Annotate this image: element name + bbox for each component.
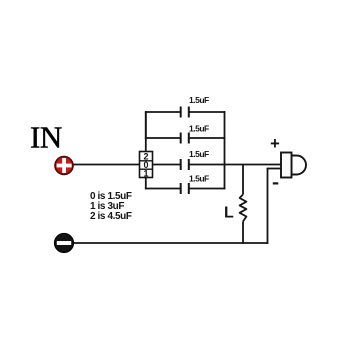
wire switch bottom riser: [145, 178, 147, 190]
wire speaker negative horizontal: [267, 168, 281, 170]
svg-text:1.5uF: 1.5uF: [189, 95, 209, 105]
svg-text:IN: IN: [30, 120, 62, 155]
wire input + to switch: [74, 164, 140, 166]
label speaker -: [273, 182, 279, 184]
inductor L branch wire top: [242, 165, 244, 195]
wire row3 right to speaker: [190, 164, 282, 166]
svg-text:L: L: [224, 205, 234, 222]
wire row1 left: [145, 111, 180, 113]
wire speaker negative riser: [267, 169, 269, 244]
wire switch top riser: [145, 112, 147, 152]
inductor L branch wire bottom: [242, 222, 244, 244]
wire row2 right: [190, 137, 226, 139]
label IN: [30, 120, 62, 155]
speaker tweeter SP1: [281, 153, 306, 178]
wire row4 left: [145, 188, 180, 190]
wire row2 left: [145, 137, 180, 139]
note switch position values: [90, 191, 132, 222]
switch S1 selector box: [140, 152, 153, 178]
terminal + (input positive): [55, 157, 73, 175]
svg-text:2 is 4.5uF: 2 is 4.5uF: [90, 211, 132, 222]
svg-text:1.5uF: 1.5uF: [189, 149, 209, 159]
capacitor C4: [181, 183, 189, 194]
wire right bus: [224, 111, 226, 189]
terminal - (input negative): [54, 233, 73, 252]
svg-text:1.5uF: 1.5uF: [189, 124, 209, 134]
capacitor C2: [181, 133, 189, 144]
wire row3 left (switch to C3): [153, 164, 181, 166]
inductor L: [240, 195, 247, 222]
capacitor C3: [181, 159, 189, 170]
wire bottom return: [74, 242, 268, 244]
wire row1 right: [190, 111, 226, 113]
wire left bus row1-row2: [145, 111, 147, 139]
svg-text:1: 1: [143, 169, 148, 179]
wire row4 right: [190, 188, 226, 190]
svg-text:+: +: [270, 135, 280, 153]
svg-text:1.5uF: 1.5uF: [189, 174, 209, 184]
capacitor C1: [181, 107, 189, 118]
